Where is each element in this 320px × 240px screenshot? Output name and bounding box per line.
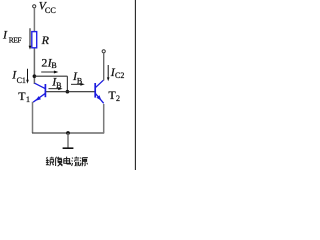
svg-text:REF: REF [9, 35, 22, 44]
svg-text:C1: C1 [17, 76, 26, 85]
svg-text:B: B [77, 77, 82, 86]
svg-text:R: R [41, 33, 50, 47]
svg-text:2: 2 [41, 55, 47, 69]
svg-text:CC: CC [45, 6, 56, 15]
svg-text:B: B [56, 81, 61, 90]
svg-text:T: T [18, 89, 26, 103]
svg-text:2: 2 [116, 94, 120, 103]
svg-text:I: I [2, 27, 8, 41]
svg-text:1: 1 [26, 95, 30, 104]
svg-text:B: B [51, 61, 56, 70]
svg-text:C2: C2 [115, 71, 124, 80]
